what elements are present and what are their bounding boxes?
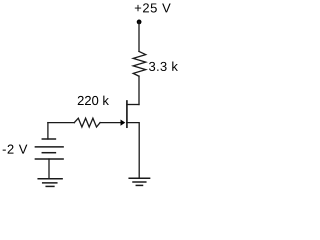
transistor Q1 bar <box>126 101 128 127</box>
battery V1 -2 V plates <box>35 139 63 159</box>
ground right (emitter) <box>129 178 149 185</box>
value label 220 k <box>78 96 109 106</box>
base arrowhead into transistor <box>121 120 126 126</box>
wire base line down to battery <box>47 123 49 139</box>
resistor R1 3.3 k zigzag <box>133 51 146 76</box>
label -2 V <box>3 145 28 154</box>
base wire from battery to transistor <box>48 122 121 124</box>
emitter lead wire <box>127 123 139 179</box>
value label 3.3 k <box>149 61 178 71</box>
resistor R2 220 k zigzag <box>74 118 100 127</box>
collector lead wire <box>127 104 139 106</box>
wire resistor bottom to collector corner <box>138 76 140 104</box>
wire battery bottom to ground <box>48 159 50 179</box>
ground left (battery) <box>38 179 62 187</box>
label +25 V supply <box>135 3 171 12</box>
node dot at +25 V terminal <box>137 20 142 25</box>
wire supply node to resistor top <box>138 22 140 52</box>
